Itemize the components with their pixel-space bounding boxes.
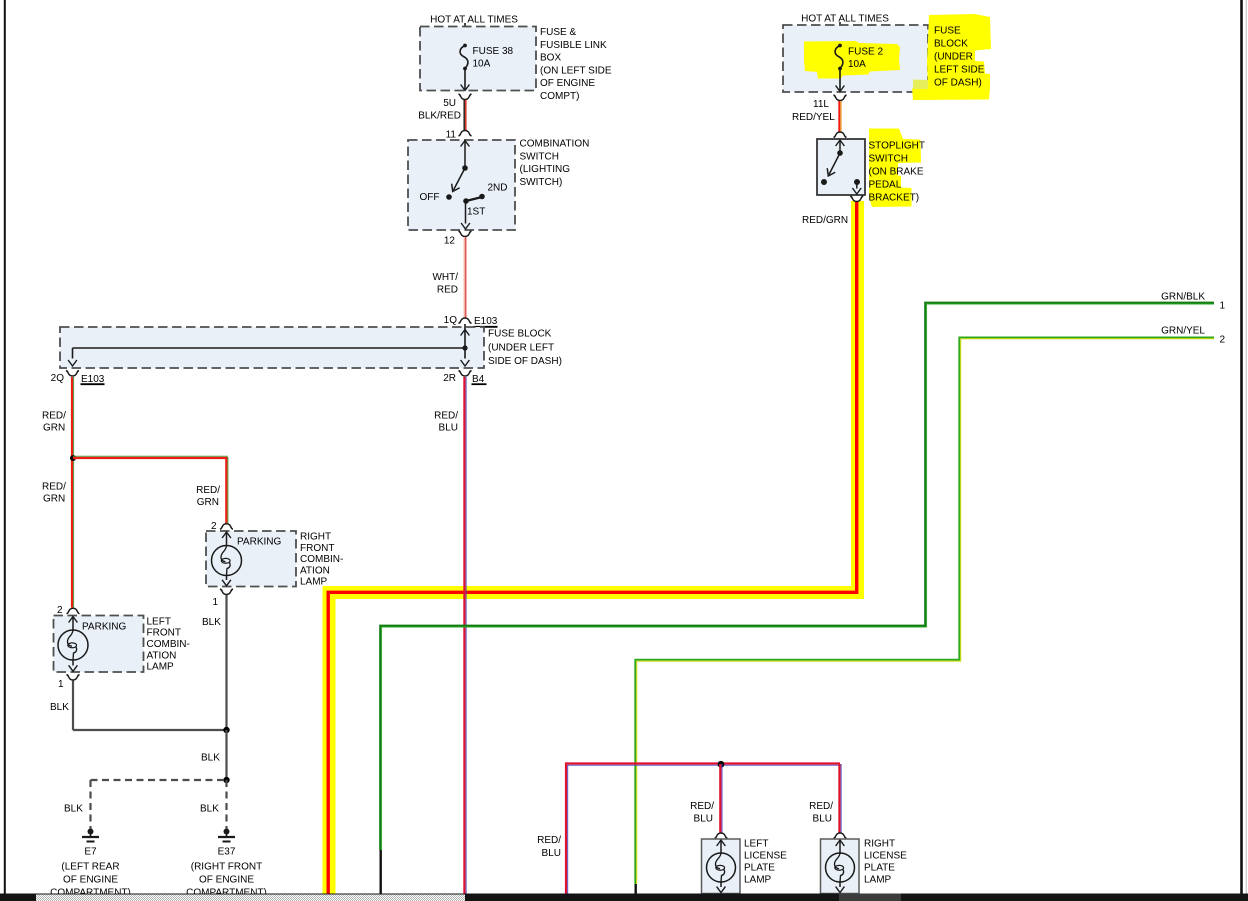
svg-text:FUSE: FUSE [934,26,961,37]
wire GRN/BLK (1) [380,303,1214,850]
svg-text:PARKING: PARKING [82,622,126,633]
svg-text:SWITCH: SWITCH [520,151,559,162]
svg-text:BLK: BLK [64,804,83,815]
svg-text:1: 1 [212,597,218,608]
svg-text:LEFT SIDE: LEFT SIDE [934,65,985,76]
svg-text:LAMP: LAMP [744,875,772,886]
svg-text:FUSE 2: FUSE 2 [848,47,883,58]
svg-text:COMBINATION: COMBINATION [520,139,590,150]
svg-text:FUSIBLE LINK: FUSIBLE LINK [540,40,607,51]
svg-text:E7: E7 [84,847,97,858]
svg-text:RED/: RED/ [196,485,220,496]
junction node RED/BLU [718,761,725,768]
svg-text:RED/: RED/ [537,835,561,846]
svg-text:FRONT: FRONT [147,628,181,639]
wire BLK down to splice [225,730,227,780]
fuse & fusible link box (dashed) [420,27,536,91]
svg-text:11L: 11L [813,99,829,110]
svg-text:(LIGHTING: (LIGHTING [520,164,571,175]
svg-text:WHT/: WHT/ [432,272,458,283]
svg-text:RED/: RED/ [809,801,833,812]
svg-text:2ND: 2ND [488,183,508,194]
svg-text:LICENSE: LICENSE [744,851,787,862]
wire RED/BLU down to left license lamp [719,764,721,833]
connector below stoplight switch [850,196,863,202]
svg-text:1ST: 1ST [467,207,485,218]
svg-text:GRN: GRN [43,423,65,434]
svg-text:LEFT: LEFT [744,839,768,850]
svg-text:E37: E37 [218,847,236,858]
svg-text:1Q: 1Q [444,315,458,326]
svg-text:2: 2 [1220,335,1226,346]
svg-text:COMPT): COMPT) [540,91,579,102]
svg-text:SWITCH): SWITCH) [520,177,563,188]
svg-text:5U: 5U [443,98,456,109]
wire BLK (dashed) to E7 ground [91,779,227,781]
wire inside fuse block: 1Q to 2Q and 2R [464,324,466,359]
svg-text:(ON LEFT SIDE: (ON LEFT SIDE [540,65,612,76]
svg-text:BLK/RED: BLK/RED [418,111,461,122]
scrollbar track (dithered) [36,895,465,901]
wire BLK continuation of GRN/BLK to bottom [380,850,382,894]
svg-text:SWITCH: SWITCH [869,154,908,165]
svg-text:FUSE 38: FUSE 38 [473,46,514,57]
junction node BLK splice [223,777,229,783]
svg-text:RED/YEL: RED/YEL [792,112,835,123]
connector into right license plate lamp [834,833,847,839]
svg-text:RIGHT: RIGHT [864,839,895,850]
junction node on RED/GRN [70,455,76,461]
svg-text:FRONT: FRONT [300,543,334,554]
wire BLK from right front lamp [225,595,227,730]
connector 5U below fuse box [459,94,472,100]
svg-text:ATION: ATION [147,650,177,661]
wire BLK (dashed) to E37 ground [225,780,227,829]
page border right [1240,0,1243,894]
svg-text:2Q: 2Q [51,373,65,384]
svg-text:PARKING: PARKING [237,537,281,548]
wire BLK/RED [463,100,465,130]
bottom black band [0,894,1248,901]
svg-text:BLK: BLK [200,804,219,815]
fuse block box (under left side of dash, dashed, wide) [60,327,484,368]
highlight: yellow marker over STOPLIGHT SWITCH text [869,129,921,208]
svg-text:RED/: RED/ [42,411,66,422]
svg-text:FUSE BLOCK: FUSE BLOCK [488,329,552,340]
svg-text:GRN/YEL: GRN/YEL [1161,326,1205,337]
right license plate lamp box [821,839,860,894]
svg-text:ATION: ATION [300,565,330,576]
wire into fuse block [839,22,841,45]
ground E37 [224,829,230,835]
wire RED/BLU from 2R down to bottom [463,377,465,894]
svg-text:GRN: GRN [197,497,219,508]
left license plate lamp box [702,839,741,894]
svg-text:1: 1 [58,679,64,690]
svg-text:RED/: RED/ [434,411,458,422]
svg-text:RED/: RED/ [690,801,714,812]
svg-text:1: 1 [1220,301,1226,312]
wire RED/GRN branch to right front lamp [73,455,228,457]
lamp bulb PARKING (left front) [69,617,78,623]
svg-text:BOX: BOX [540,53,561,64]
svg-text:COMBIN-: COMBIN- [147,639,190,650]
fuse Fuse 38 10A [463,44,467,48]
left front combination lamp box [54,616,144,673]
wire RED/GRN (highlighted): stoplight switch to bottom [329,201,864,894]
svg-text:OF DASH): OF DASH) [934,78,982,89]
svg-text:2R: 2R [443,373,456,384]
right front combination lamp box [206,531,296,587]
svg-text:(LEFT REAR: (LEFT REAR [61,862,119,873]
svg-text:12: 12 [444,236,456,247]
wire GRN/YEL (2) [635,337,1214,884]
svg-text:(RIGHT FRONT: (RIGHT FRONT [191,862,262,873]
combination switch box (dashed) [408,140,515,230]
svg-text:LEFT: LEFT [147,616,171,627]
svg-text:HOT AT ALL TIMES: HOT AT ALL TIMES [801,14,889,25]
svg-text:OFF: OFF [420,192,440,203]
wire from HOT AT ALL TIMES into fuse box [464,23,466,45]
switch: combination (lighting) switch OFF/1ST/2ND [461,141,470,147]
wire RED/BLU right leg down to right license lamp [838,764,840,833]
connector into stoplight switch [834,132,847,138]
svg-text:BLOCK: BLOCK [934,39,968,50]
switch: stoplight switch [836,140,845,146]
lamp bulb (right license plate) [836,840,845,846]
fuse block box (dashed, top right) [783,25,928,92]
connector 1 below right front lamp [220,589,233,595]
fuse Fuse 2 10A [838,44,842,48]
svg-text:RED/: RED/ [42,482,66,493]
svg-text:(ON BRAKE: (ON BRAKE [869,167,924,178]
svg-text:RIGHT: RIGHT [300,532,331,543]
ground E7 [88,829,94,835]
svg-text:PLATE: PLATE [864,863,895,874]
highlight: yellow marker over FUSE BLOCK (UNDER LEFT SIDE OF DASH) text [912,14,991,100]
junction node BLK [223,727,229,733]
wire BLK from left front lamp [72,681,74,731]
connector 2R / B4 below fuse block [459,371,472,377]
svg-text:BLU: BLU [694,814,713,825]
svg-text:LICENSE: LICENSE [864,851,907,862]
highlight: yellow marker over FUSE 2 area [804,41,900,79]
svg-text:HOT AT ALL TIMES: HOT AT ALL TIMES [430,15,518,26]
lamp bulb PARKING (right front) [222,532,231,538]
svg-text:OF ENGINE: OF ENGINE [199,875,254,886]
lamp bulb (left license plate) [717,840,726,846]
svg-text:(UNDER LEFT: (UNDER LEFT [488,342,554,353]
svg-text:FUSE &: FUSE & [540,27,576,38]
svg-text:10A: 10A [848,59,866,70]
svg-text:OF ENGINE: OF ENGINE [63,875,118,886]
wire BLK continuation of GRN/YEL to bottom [635,884,637,894]
wire RED/BLU harness: down-left leg [566,764,840,894]
svg-text:2: 2 [57,605,63,616]
svg-text:PLATE: PLATE [744,863,775,874]
wire WHT/RED [463,237,465,318]
page border left [4,0,6,895]
wire BLK joining both lamps [73,729,227,731]
connector 11L below fuse block [834,95,847,101]
svg-text:LAMP: LAMP [147,662,175,673]
svg-text:COMBIN-: COMBIN- [300,554,343,565]
connector 2Q / E103 below fuse block [66,371,79,377]
svg-text:BLK: BLK [202,617,221,628]
svg-text:LAMP: LAMP [864,875,892,886]
svg-text:SIDE OF DASH): SIDE OF DASH) [488,356,562,367]
svg-text:RED: RED [437,285,458,296]
connector into left license plate lamp [715,833,728,839]
svg-text:OF ENGINE: OF ENGINE [540,78,595,89]
svg-text:BLU: BLU [542,848,561,859]
svg-text:GRN/BLK: GRN/BLK [1161,292,1205,303]
svg-text:GRN: GRN [43,494,65,505]
svg-text:BRACKET): BRACKET) [869,193,920,204]
wire RED/GRN from 2Q down [71,377,73,608]
connector 1 below left front lamp [67,675,80,681]
connector 12 below combination switch [459,231,472,237]
svg-text:(UNDER: (UNDER [934,52,973,63]
svg-text:STOPLIGHT: STOPLIGHT [869,141,926,152]
svg-text:RED/GRN: RED/GRN [802,215,848,226]
svg-text:E103: E103 [474,316,498,327]
svg-text:10A: 10A [473,59,491,70]
svg-text:BLK: BLK [50,702,69,713]
svg-text:PEDAL: PEDAL [869,180,902,191]
svg-text:BLU: BLU [439,423,458,434]
stoplight switch box (solid) [817,139,865,195]
svg-text:BLK: BLK [201,753,220,764]
wire RED/YEL [838,101,840,132]
svg-text:BLU: BLU [813,814,832,825]
svg-text:LAMP: LAMP [300,577,328,588]
svg-text:11: 11 [446,130,457,141]
